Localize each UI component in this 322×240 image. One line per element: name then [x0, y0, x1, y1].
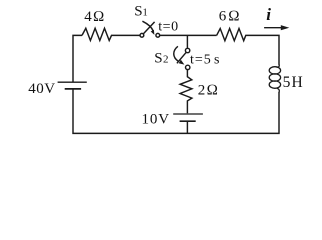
svg-text:i: i [266, 5, 271, 24]
svg-text:10V: 10V [142, 112, 171, 128]
svg-text:40V: 40V [28, 81, 55, 97]
svg-text:4Ω: 4Ω [84, 9, 105, 25]
svg-text:t=5s: t=5s [190, 53, 220, 68]
svg-text:t=0: t=0 [158, 19, 179, 34]
svg-text:S2: S2 [154, 51, 168, 67]
svg-text:S1: S1 [134, 4, 148, 20]
svg-text:5H: 5H [283, 74, 304, 91]
svg-text:2Ω: 2Ω [198, 82, 219, 98]
svg-text:6Ω: 6Ω [219, 8, 242, 24]
